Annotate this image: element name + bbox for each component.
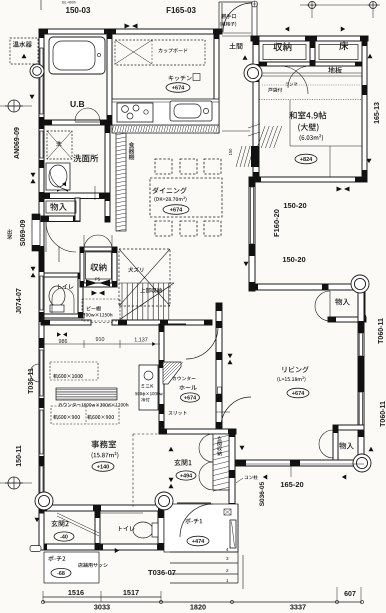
genkan cabinet arcs: [199, 434, 213, 490]
shuno walls: [80, 247, 117, 287]
left dim texts: [7, 127, 35, 467]
bowtie kitchen top: [125, 24, 138, 29]
toilet2 east partition: [158, 511, 164, 550]
toilet1 door arch: [52, 288, 74, 313]
shuno top inner box: [263, 45, 306, 60]
svg-text:1517: 1517: [123, 588, 139, 597]
wall top (north, UB-kitchen): [39, 29, 222, 34]
shokkidana hatch: [116, 133, 126, 231]
bowtie stairs: [92, 291, 105, 296]
tri marks genkan: [169, 446, 245, 489]
dining east window: [251, 187, 254, 244]
kitchen counter front hatch: [112, 125, 219, 133]
stove: [117, 103, 153, 122]
cupboard dashed: [115, 40, 205, 65]
svg-text:165-13: 165-13: [374, 102, 381, 124]
bowtie porch: [263, 475, 268, 480]
notch south wall: [249, 284, 361, 290]
svg-text:4: 4: [226, 547, 229, 552]
mid dim F160-20: [272, 209, 281, 237]
label katteguchi: [220, 14, 236, 27]
washitsu top wall: [251, 36, 368, 41]
drain circle genkan: [155, 492, 173, 510]
label hall: [173, 376, 200, 402]
onsuiki dashed box: [10, 38, 38, 64]
office dashed boundary: [133, 434, 159, 508]
hall east wall (washitsu west): [253, 36, 259, 181]
label kitchen: [166, 74, 200, 93]
svg-text:-68: -68: [57, 571, 65, 577]
sink: [170, 101, 212, 121]
svg-text:BL-400h: BL-400h: [62, 1, 76, 5]
top dim F165: [166, 6, 196, 15]
stair treads: [119, 283, 174, 320]
office desks dashed2: [51, 406, 119, 424]
dining chairs top: [155, 159, 221, 174]
svg-text:3033: 3033: [94, 603, 110, 612]
svg-text:F160-20: F160-20: [272, 209, 281, 237]
label shuno mid: [90, 263, 106, 271]
label slit: [168, 411, 186, 415]
svg-text:3: 3: [226, 556, 229, 561]
bottom dim row1: [43, 588, 161, 602]
svg-text:150-20: 150-20: [283, 201, 306, 210]
label senmenjo: [73, 154, 98, 162]
shuno inner box: [86, 252, 112, 279]
drain circle SE: [353, 454, 371, 472]
monoire L walls: [41, 186, 110, 222]
tataki slope lines: [57, 513, 143, 553]
washitsu shuno/toko walls: [259, 40, 362, 66]
washitsu south wall: [251, 177, 367, 182]
UB/senmenjo wall: [44, 120, 112, 125]
tri marks left: [31, 173, 40, 523]
label genkan1: [174, 459, 196, 480]
washitsu east wall: [362, 36, 367, 182]
south wall office/genkan band: [39, 505, 236, 511]
label washitsu: [289, 111, 326, 164]
genkan shoes label: [217, 436, 222, 456]
genkan2 west wall lower: [30, 513, 44, 552]
dining east wall: [249, 177, 255, 291]
shuno double doors: [84, 235, 112, 249]
washing machine dashed: [47, 131, 72, 159]
svg-text:+494: +494: [180, 473, 192, 479]
dining table dashed: [150, 178, 222, 217]
label monoire1: [335, 298, 350, 305]
konbashira label: [236, 475, 258, 483]
office counter hatch: [56, 388, 117, 400]
west outer wall: [39, 29, 44, 513]
top dim line right: [300, 2, 380, 19]
porch1 pillar: [230, 520, 236, 548]
svg-text:165-20: 165-20: [280, 480, 303, 489]
label jimushitsu: [91, 440, 118, 471]
svg-text:+674: +674: [292, 391, 305, 397]
shuno bowtie: [86, 278, 110, 287]
tri marks right: [228, 54, 374, 480]
genkan shoe cabinet: [213, 434, 229, 491]
stair label inuzuri: [128, 267, 143, 272]
office dim line: [44, 332, 160, 350]
svg-text:+674: +674: [170, 208, 183, 214]
genkan2 partition: [95, 511, 100, 550]
svg-text:S036-05: S036-05: [259, 481, 266, 506]
svg-text:+474: +474: [192, 539, 205, 545]
label toilet2: [119, 526, 135, 531]
svg-text:+824: +824: [300, 157, 313, 163]
top dim left: [41, 0, 91, 15]
tatami lines: [259, 85, 362, 177]
svg-text:2: 2: [226, 568, 229, 573]
label living: [277, 366, 309, 398]
dining-hall door: [164, 324, 218, 359]
monoire1 walls: [328, 284, 366, 322]
mid dim S036-05: [259, 481, 266, 506]
living east window1: [359, 333, 362, 356]
hall counter hatch: [163, 362, 183, 384]
label doma: [229, 43, 242, 50]
svg-text:-40: -40: [60, 534, 68, 540]
office counter label: [59, 403, 129, 407]
mid dim 165-20 bottom: [202, 61, 204, 63]
label genkan2: [51, 520, 74, 541]
svg-text:150: 150: [228, 148, 233, 156]
stair void dashed: [119, 249, 170, 306]
katteguchi bump walls: [219, 2, 257, 36]
arrows washitsu top: [285, 27, 346, 32]
office desk dashed1: [50, 362, 98, 380]
genkan1 north wall: [159, 429, 236, 434]
living south wall: [236, 460, 364, 466]
svg-text:T036-11: T036-11: [28, 368, 35, 394]
monoire2 walls: [333, 425, 364, 464]
dining chairs bottom: [155, 221, 221, 236]
doma threshold: [222, 33, 251, 60]
svg-text:150-11: 150-11: [16, 445, 23, 467]
svg-text:910: 910: [96, 337, 105, 343]
monoire1 doors: [315, 291, 330, 321]
wall top black chunks: [39, 29, 222, 34]
toko inner box: [319, 45, 358, 60]
drain circle UB: [30, 64, 44, 78]
label toilet1: [58, 284, 74, 289]
svg-text:T060-11: T060-11: [380, 401, 386, 427]
svg-text:150-03: 150-03: [66, 6, 91, 15]
monoire1 door arcs: [46, 222, 76, 262]
toilet1 fixture: [49, 286, 65, 312]
toilet1 walls: [44, 273, 84, 318]
svg-text:J074-07: J074-07: [16, 288, 23, 314]
label porch2: [48, 556, 71, 578]
mid dim 150-20 b: [282, 255, 305, 264]
label shuno top: [273, 42, 291, 51]
hall tick lines: [222, 124, 260, 156]
svg-text:+140: +140: [97, 465, 110, 471]
mid dim T036-07: [148, 568, 176, 577]
katteguchi diamond: [252, 1, 258, 7]
washitsu sliding doors: [268, 66, 308, 94]
stair upper label: [140, 288, 161, 293]
svg-text:+674: +674: [184, 395, 196, 401]
svg-text:1,137: 1,137: [134, 338, 148, 344]
svg-text:U.B: U.B: [70, 99, 85, 109]
crosshair bottom left: [0, 477, 32, 489]
label porch1: [185, 518, 209, 546]
pea shelf: [82, 299, 120, 321]
drain circle NE: [351, 275, 369, 293]
svg-text:1820: 1820: [190, 603, 206, 612]
hall column circle: [244, 64, 262, 82]
genkan1 front door: [177, 503, 213, 537]
genkan1 east wall: [229, 429, 235, 511]
shokkidana label: [129, 142, 135, 160]
svg-text:3337: 3337: [290, 603, 306, 612]
label UB: [70, 99, 85, 109]
toilet2 fixture: [133, 522, 158, 538]
hall/office wall: [159, 324, 164, 429]
jita band: [259, 67, 362, 76]
office north wall: [41, 320, 212, 325]
svg-text:150-20: 150-20: [282, 255, 305, 264]
bowtie washitsu bottom: [337, 187, 350, 192]
hall hatch: [236, 126, 282, 167]
bay window (demado): [32, 214, 40, 251]
west wall windows: [40, 48, 43, 501]
katteguchi door arc: [222, 3, 252, 32]
svg-text:+674: +674: [172, 86, 185, 92]
porch1 steps: [170, 504, 243, 589]
label toko: [339, 41, 348, 50]
kitchen counter: [112, 99, 219, 125]
porch2 slab: [44, 552, 99, 583]
label monoire w: [50, 203, 66, 211]
svg-text:607: 607: [344, 591, 356, 598]
hall-living door: [216, 387, 251, 427]
svg-text:AN069-09: AN069-09: [14, 127, 21, 159]
kitchen counter east wall: [214, 29, 219, 133]
bathtub: [49, 37, 105, 74]
right dim texts: [374, 102, 386, 427]
label tenpo: [78, 563, 108, 568]
svg-text:986: 986: [59, 339, 68, 345]
miniK box: [135, 365, 163, 410]
UB east wall: [107, 29, 112, 125]
drain circle SW: [35, 492, 53, 510]
office west door bump: [30, 364, 39, 382]
label monoire2: [339, 442, 354, 449]
living west wall: [216, 303, 222, 430]
svg-text:1516: 1516: [68, 588, 84, 597]
svg-text:T036-07: T036-07: [148, 568, 176, 577]
svg-text:1: 1: [226, 578, 229, 583]
washbasin: [46, 163, 70, 190]
svg-text:T060-11: T060-11: [378, 318, 385, 344]
mid dim 150-20 a: [283, 201, 306, 210]
living east wall: [358, 290, 364, 466]
living east window2: [359, 392, 362, 425]
svg-text:F165-03: F165-03: [166, 6, 196, 15]
mid dim 165-20: [236, 464, 364, 489]
bottom dim 607: [337, 587, 361, 600]
monoire2 doors: [319, 430, 333, 458]
porch1 slab: [164, 504, 238, 552]
genkan2/toilet south wall: [39, 544, 165, 550]
crosshair top left: [0, 95, 35, 112]
svg-text:S069-09: S069-09: [20, 220, 27, 247]
UB door: [75, 108, 100, 122]
senmenjo east wall: [105, 125, 110, 222]
vent box porch: [224, 509, 231, 515]
bottom dim row2: [41, 600, 363, 611]
label dining: [152, 187, 189, 214]
